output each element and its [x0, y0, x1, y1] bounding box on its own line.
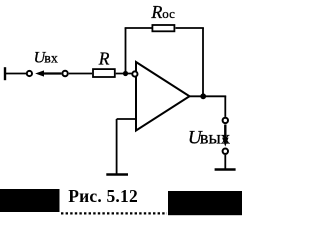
- svg-text:ос: ос: [162, 6, 175, 21]
- svg-text:вх: вх: [44, 51, 58, 66]
- svg-text:Рис. 5.12: Рис. 5.12: [68, 186, 138, 206]
- svg-text:вых: вых: [200, 128, 230, 148]
- svg-text:R: R: [98, 48, 110, 68]
- svg-text:R: R: [150, 2, 162, 22]
